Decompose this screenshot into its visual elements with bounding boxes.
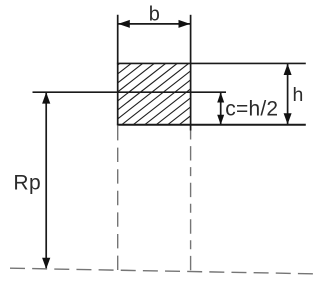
- svg-text:h: h: [293, 84, 304, 106]
- arrowhead h top: [284, 64, 292, 75]
- dashed extension left vertical: [117, 126, 119, 270]
- arrowhead c bottom: [217, 115, 224, 125]
- arrowhead b left: [118, 20, 130, 28]
- rectangle bottom edge + h bottom extension line: [117, 124, 306, 126]
- svg-text:Rp: Rp: [13, 171, 41, 194]
- arrowhead h bottom: [284, 113, 292, 124]
- dashed extension right vertical: [190, 131, 192, 273]
- dashed base line: [10, 268, 313, 274]
- dimension line c: [220, 93, 222, 125]
- svg-text:b: b: [149, 3, 160, 25]
- dimension line h: [287, 64, 289, 125]
- arrowhead Rp top: [42, 92, 50, 103]
- rectangle right edge + b extension line: [190, 15, 192, 131]
- arrowhead b right: [179, 20, 191, 28]
- hatched cross-section rectangle: [41, 63, 269, 124]
- svg-text:c=h/2: c=h/2: [225, 98, 278, 121]
- dimension line b: [118, 23, 190, 25]
- dimension line Rp: [45, 93, 47, 269]
- rectangle left edge + b extension line: [117, 15, 119, 125]
- arrowhead Rp bottom: [42, 258, 50, 269]
- arrowhead c top: [217, 92, 224, 102]
- rectangle top edge + h top extension line: [117, 62, 306, 64]
- centroid axis line: [33, 91, 227, 93]
